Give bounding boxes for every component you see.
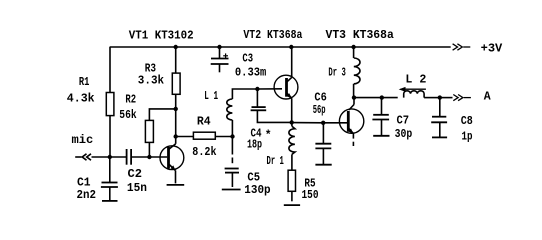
svg-text:*: *: [265, 130, 272, 143]
svg-text:+3V: +3V: [481, 42, 503, 55]
node mic-R1-C1: [108, 155, 112, 159]
capacitor C4 trimmer: [251, 89, 292, 122]
transistor VT3: [339, 98, 363, 146]
svg-text:R1: R1: [79, 76, 90, 89]
wire collector node to output: [354, 97, 398, 99]
wire +3V top rail: [110, 46, 451, 48]
node VT2 emitter-C4-Dr1: [290, 120, 294, 124]
node VT1 collector / R4: [174, 134, 178, 138]
svg-text:C2: C2: [128, 168, 143, 181]
svg-text:mic: mic: [72, 134, 94, 147]
wire R2 top to R3 line: [149, 109, 175, 121]
node C7 branch: [380, 95, 384, 99]
wire R2 bottom to base node: [148, 142, 150, 157]
svg-text:C3: C3: [242, 53, 253, 66]
svg-text:1p: 1p: [462, 130, 473, 143]
connector mic input arrow: [75, 154, 126, 160]
svg-text:VT1 KT3102: VT1 KT3102: [129, 29, 194, 42]
svg-text:A: A: [484, 91, 491, 104]
resistor R4: [176, 132, 233, 139]
inductor L2 (tunable): [404, 91, 440, 98]
svg-text:8.2k: 8.2k: [192, 146, 216, 159]
wire tank to VT2 base: [257, 88, 282, 90]
node R2-R3 junction: [174, 107, 178, 111]
node rail-Dr3: [351, 45, 355, 49]
svg-text:3.3k: 3.3k: [138, 74, 164, 87]
svg-text:C8: C8: [461, 115, 473, 128]
svg-text:2n2: 2n2: [77, 189, 97, 202]
inductor Dr3: [354, 47, 360, 98]
node rail-VT2 collector: [289, 45, 293, 49]
capacitor C1: [101, 157, 118, 201]
capacitor C7: [372, 98, 389, 136]
inductor L1: [227, 89, 258, 137]
ground C1: [102, 200, 118, 202]
wire left branch vertical (rail to mic node): [109, 47, 111, 157]
ground C7: [373, 135, 389, 137]
connector arrow +3V: [453, 44, 471, 50]
node C6 branch: [321, 121, 325, 125]
capacitor C2: [127, 149, 150, 165]
svg-text:L 1: L 1: [204, 90, 218, 103]
connector antenna output arrow: [440, 95, 471, 101]
svg-text:18p: 18p: [247, 139, 262, 152]
inductor Dr1: [289, 122, 295, 170]
ground R5: [284, 204, 300, 206]
capacitor C5 (dashed lead): [225, 137, 239, 188]
svg-text:56p: 56p: [313, 104, 326, 117]
capacitor C3: [211, 47, 229, 72]
ground VT1 emitter: [167, 184, 185, 186]
wire emitter node to C6 node: [292, 122, 324, 124]
node rail-C3: [217, 45, 221, 49]
wire base node to VT1: [149, 156, 167, 158]
svg-text:56k: 56k: [119, 109, 136, 122]
capacitor C8: [431, 98, 447, 138]
transistor VT2: [274, 47, 298, 122]
svg-text:15n: 15n: [127, 182, 147, 195]
capacitor C6: [315, 123, 331, 165]
svg-text:VT2 KT368a: VT2 KT368a: [243, 29, 302, 42]
svg-text:C5: C5: [247, 172, 260, 185]
resistor R2: [145, 120, 153, 142]
svg-text:150: 150: [302, 189, 319, 202]
svg-text:L 2: L 2: [405, 74, 426, 87]
svg-text:R4: R4: [197, 116, 211, 129]
node L1-R4-C5: [230, 134, 234, 138]
node rail-R3: [174, 45, 178, 49]
svg-text:VT3 KT368a: VT3 KT368a: [326, 29, 394, 42]
wire C6 node to VT3 base: [323, 122, 347, 124]
resistor R3: [172, 47, 180, 137]
svg-text:130p: 130p: [244, 184, 270, 197]
node C8 branch / output: [438, 95, 442, 99]
svg-text:Dr 1: Dr 1: [267, 155, 284, 168]
ground C6: [315, 164, 331, 166]
resistor R1: [106, 93, 114, 116]
arrow L2 tuning: [399, 87, 426, 92]
transistor VT1: [160, 137, 184, 184]
polarity + of C3: [223, 53, 228, 58]
svg-text:4.3k: 4.3k: [67, 92, 95, 105]
svg-text:R2: R2: [125, 94, 136, 107]
svg-text:C1: C1: [77, 176, 91, 189]
node VT3 collector-Dr3-output: [352, 95, 356, 99]
node L1 top-C4-VT2 base wire: [255, 87, 259, 91]
svg-text:C6: C6: [314, 91, 326, 104]
svg-text:0.33m: 0.33m: [235, 67, 266, 80]
node C2-R2-VT1 base: [147, 155, 151, 159]
svg-text:Dr 3: Dr 3: [328, 67, 345, 80]
svg-text:30p: 30p: [395, 128, 413, 141]
svg-text:C7: C7: [397, 115, 410, 128]
ground C8: [432, 136, 447, 138]
resistor R5: [288, 170, 295, 201]
ground C5: [222, 189, 241, 191]
